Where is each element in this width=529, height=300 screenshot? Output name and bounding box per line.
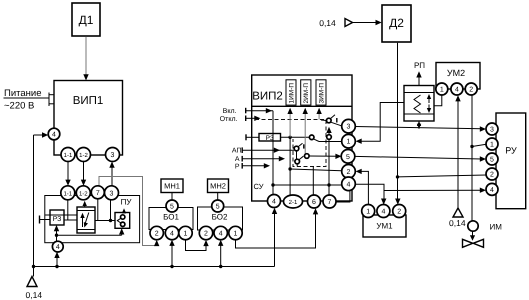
svg-text:4: 4 bbox=[381, 209, 385, 216]
svg-text:0,14: 0,14 bbox=[319, 18, 336, 28]
svg-text:2: 2 bbox=[397, 209, 401, 216]
svg-text:7: 7 bbox=[96, 190, 100, 197]
svg-text:3: 3 bbox=[347, 124, 351, 131]
svg-text:Питание: Питание bbox=[4, 88, 42, 99]
svg-text:0,14: 0,14 bbox=[26, 290, 43, 300]
svg-text:2: 2 bbox=[155, 231, 159, 238]
svg-text:УМ1: УМ1 bbox=[376, 222, 393, 231]
svg-text:4: 4 bbox=[170, 231, 174, 238]
svg-text:УМ2: УМ2 bbox=[447, 68, 465, 78]
svg-text:ПУ: ПУ bbox=[121, 198, 133, 207]
svg-text:1: 1 bbox=[184, 231, 188, 238]
svg-text:5: 5 bbox=[216, 203, 220, 210]
svg-text:Р: Р bbox=[235, 163, 240, 170]
svg-text:1: 1 bbox=[234, 231, 238, 238]
svg-text:6: 6 bbox=[312, 199, 316, 206]
svg-text:1-1: 1-1 bbox=[63, 190, 72, 197]
svg-text:1: 1 bbox=[490, 142, 494, 149]
svg-text:3ИМ-П: 3ИМ-П bbox=[318, 83, 325, 104]
svg-text:СУ: СУ bbox=[254, 182, 264, 191]
svg-text:РУ: РУ bbox=[505, 146, 517, 156]
svg-text:2: 2 bbox=[490, 172, 494, 179]
svg-text:4: 4 bbox=[455, 87, 459, 94]
svg-text:3: 3 bbox=[111, 152, 115, 159]
svg-text:МН1: МН1 bbox=[164, 182, 180, 191]
svg-text:1: 1 bbox=[347, 139, 351, 146]
svg-text:АП: АП bbox=[232, 148, 242, 155]
svg-text:1: 1 bbox=[440, 87, 444, 94]
svg-text:4: 4 bbox=[56, 244, 60, 251]
svg-text:5: 5 bbox=[346, 154, 350, 161]
svg-text:4: 4 bbox=[347, 181, 351, 188]
svg-text:1-2: 1-2 bbox=[79, 152, 88, 159]
svg-text:ВИП2: ВИП2 bbox=[252, 91, 283, 103]
svg-text:1: 1 bbox=[366, 209, 370, 216]
svg-text:А: А bbox=[235, 156, 240, 163]
svg-text:5: 5 bbox=[490, 157, 494, 164]
svg-text:4: 4 bbox=[52, 131, 56, 138]
svg-text:5: 5 bbox=[170, 203, 174, 210]
svg-text:Вкл.: Вкл. bbox=[223, 108, 237, 115]
svg-text:4: 4 bbox=[490, 187, 494, 194]
svg-text:7: 7 bbox=[328, 199, 332, 206]
svg-text:БО2: БО2 bbox=[212, 213, 228, 222]
svg-text:4: 4 bbox=[272, 199, 276, 206]
svg-text:ИМ: ИМ bbox=[490, 223, 503, 232]
svg-text:Д2: Д2 bbox=[389, 16, 404, 30]
svg-text:Откл.: Откл. bbox=[220, 116, 238, 123]
svg-text:0,14: 0,14 bbox=[449, 218, 466, 228]
svg-text:3: 3 bbox=[110, 190, 114, 197]
svg-text:1-2: 1-2 bbox=[79, 190, 88, 197]
svg-text:РЗ: РЗ bbox=[53, 216, 62, 223]
svg-text:3: 3 bbox=[490, 127, 494, 134]
svg-text:2-1: 2-1 bbox=[289, 199, 298, 206]
svg-text:РП: РП bbox=[414, 61, 425, 70]
svg-text:2: 2 bbox=[469, 87, 473, 94]
svg-text:2ИМ-П: 2ИМ-П bbox=[303, 83, 310, 104]
svg-text:1-1: 1-1 bbox=[64, 152, 73, 159]
svg-text:МН2: МН2 bbox=[210, 182, 226, 191]
svg-text:2: 2 bbox=[204, 231, 208, 238]
svg-text:2: 2 bbox=[347, 169, 351, 176]
svg-text:1ИМ-П: 1ИМ-П bbox=[288, 83, 295, 104]
svg-text:~220 В: ~220 В bbox=[4, 101, 34, 112]
svg-text:Д1: Д1 bbox=[79, 13, 94, 27]
svg-text:БО1: БО1 bbox=[163, 213, 179, 222]
svg-text:ВИП1: ВИП1 bbox=[73, 95, 104, 107]
svg-text:4: 4 bbox=[219, 231, 223, 238]
